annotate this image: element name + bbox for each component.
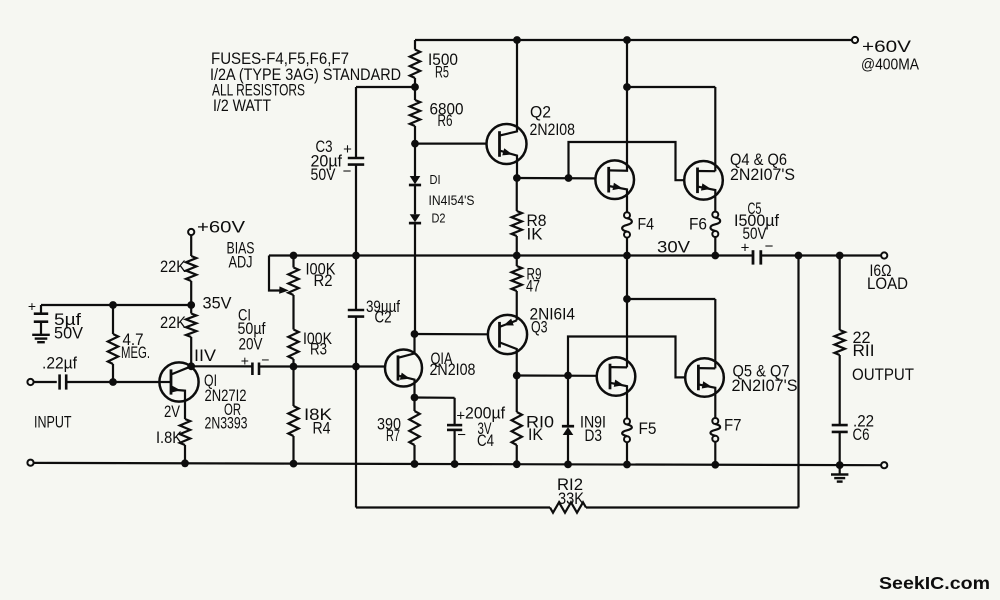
svg-text:+60V: +60V <box>862 37 912 56</box>
svg-text:R6: R6 <box>438 112 453 130</box>
svg-text:R3: R3 <box>310 341 327 359</box>
svg-text:50V: 50V <box>54 325 83 343</box>
svg-text:C4: C4 <box>477 432 494 450</box>
svg-text:INPUT: INPUT <box>34 414 72 432</box>
svg-text:+: + <box>343 141 352 158</box>
svg-text:−: − <box>457 427 466 444</box>
svg-text:22K: 22K <box>160 314 186 332</box>
svg-text:F4: F4 <box>638 216 655 234</box>
svg-text:−: − <box>343 163 352 180</box>
svg-text:+: + <box>28 298 36 314</box>
svg-text:33K: 33K <box>558 490 584 508</box>
svg-text:@400MA: @400MA <box>861 57 919 74</box>
svg-text:−: − <box>765 238 774 255</box>
svg-text:Q3: Q3 <box>531 319 548 337</box>
svg-text:IK: IK <box>528 426 543 444</box>
svg-text:+: + <box>741 240 750 257</box>
svg-text:IK: IK <box>527 226 543 244</box>
svg-text:F7: F7 <box>724 417 742 435</box>
svg-text:I.8K: I.8K <box>156 429 182 447</box>
svg-text:LOAD: LOAD <box>867 275 908 293</box>
svg-text:20V: 20V <box>239 336 263 354</box>
svg-text:−: − <box>261 352 269 368</box>
svg-text:.22µf: .22µf <box>42 355 77 373</box>
svg-text:SeekIC.com: SeekIC.com <box>879 573 990 593</box>
svg-text:OUTPUT: OUTPUT <box>852 366 914 384</box>
svg-text:+60V: +60V <box>197 219 245 237</box>
svg-text:2V: 2V <box>164 403 180 421</box>
svg-text:+: + <box>456 408 465 425</box>
svg-text:R4: R4 <box>313 420 331 438</box>
svg-text:F6: F6 <box>689 216 707 234</box>
svg-text:R7: R7 <box>386 427 400 445</box>
svg-text:Q2: Q2 <box>530 104 551 122</box>
svg-text:R5: R5 <box>435 64 449 82</box>
svg-text:MEG.: MEG. <box>121 344 150 362</box>
svg-text:2N2I07'S: 2N2I07'S <box>732 377 798 395</box>
svg-text:C2: C2 <box>375 309 392 327</box>
svg-text:R2: R2 <box>314 272 333 290</box>
svg-text:I/2 WATT: I/2 WATT <box>213 96 271 115</box>
svg-text:2N2I08: 2N2I08 <box>430 361 476 379</box>
svg-text:2N2I07'S: 2N2I07'S <box>730 166 795 184</box>
svg-text:+: + <box>241 353 249 369</box>
svg-text:50V: 50V <box>311 166 336 184</box>
svg-text:35V: 35V <box>203 295 232 313</box>
svg-text:2N2I08: 2N2I08 <box>530 121 576 139</box>
svg-text:D3: D3 <box>585 427 603 445</box>
svg-text:DI: DI <box>430 172 441 187</box>
svg-text:22K: 22K <box>160 258 186 276</box>
svg-text:C6: C6 <box>853 426 870 444</box>
svg-text:2N3393: 2N3393 <box>205 415 248 433</box>
svg-text:D2: D2 <box>432 211 446 226</box>
svg-text:IIV: IIV <box>194 347 216 365</box>
svg-text:30V: 30V <box>657 239 690 257</box>
svg-text:RII: RII <box>853 342 875 360</box>
svg-text:ADJ: ADJ <box>229 254 253 272</box>
svg-text:47: 47 <box>526 278 540 296</box>
svg-text:IN4I54'S: IN4I54'S <box>429 193 475 208</box>
svg-text:F5: F5 <box>639 420 657 438</box>
